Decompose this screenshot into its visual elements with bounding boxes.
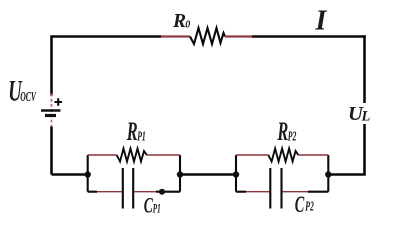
svg-text:I: I (315, 6, 328, 37)
wire: right vertical lower segment (363, 124, 366, 175)
node D junction dot (box2 right) (325, 171, 331, 177)
wire: bottom right horizontal (328, 173, 365, 176)
wire: top left horizontal segment (51, 35, 161, 38)
svg-text:OCV: OCV (20, 90, 37, 105)
wire: left vertical upper segment (50, 35, 53, 95)
svg-text:P1: P1 (153, 202, 161, 216)
node B junction dot (box1 right) (177, 171, 183, 177)
svg-text:P1: P1 (137, 130, 146, 145)
RC box 1: right edge (179, 155, 181, 192)
wire: maroon lead left of R0 (161, 35, 190, 37)
svg-text:P2: P2 (288, 130, 297, 145)
wire: middle horizontal between boxes (180, 173, 236, 176)
battery red dashed lead (51, 94, 53, 128)
RC box 2: right edge (327, 155, 329, 192)
wire: left vertical lower segment (50, 127, 53, 175)
battery plus sign (55, 98, 63, 105)
wire: maroon lead right of R0 (225, 35, 252, 37)
svg-text:R: R (126, 117, 138, 146)
wire: bottom left horizontal to node A (52, 173, 89, 176)
node A junction dot (85, 171, 91, 177)
svg-text:R: R (172, 11, 186, 32)
node C junction dot (box2 left) (233, 171, 239, 177)
svg-text:C: C (295, 193, 305, 218)
RC box 2: left edge (235, 155, 237, 192)
battery long plate (41, 109, 61, 112)
junction dot on box1 bottom (159, 189, 165, 195)
resistor R0 (190, 28, 225, 44)
svg-text:R: R (277, 117, 289, 146)
resistor RP2 (268, 149, 298, 162)
RC box 1: left edge (87, 155, 89, 192)
RC box 1: top edge red leads (88, 154, 180, 156)
RC box 1: bottom edge segments (88, 191, 97, 193)
battery short plate (45, 114, 56, 117)
svg-text:L: L (361, 108, 371, 124)
RC box 2: bottom edge segments (236, 191, 246, 193)
RC box 2: top edge red leads (236, 154, 328, 156)
capacitor CP2 plates (270, 168, 281, 209)
svg-text:0: 0 (185, 19, 190, 30)
resistor RP1 (117, 149, 147, 162)
wire: right vertical upper segment (363, 35, 366, 103)
svg-text:P2: P2 (305, 199, 314, 214)
capacitor CP1 plates (123, 168, 133, 209)
svg-text:C: C (144, 193, 154, 217)
wire: top right horizontal segment (252, 35, 366, 38)
